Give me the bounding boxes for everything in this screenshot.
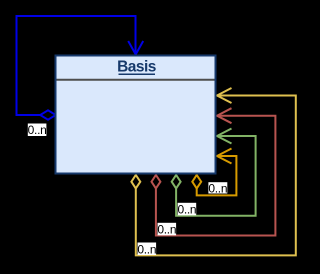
class Basis (UML class box): [56, 56, 216, 174]
multiplicity label 0..n (red): [157, 223, 176, 237]
aggregation diamond blue (left edge): [40, 110, 56, 119]
multiplicity label 0..n (green): [177, 203, 196, 217]
aggregation diamond orange (bottom edge): [192, 175, 201, 189]
wire yellow self-association: [136, 96, 296, 256]
arrowhead orange (open, into right edge): [217, 149, 232, 164]
aggregation diamond green (bottom edge): [172, 175, 181, 189]
wire orange self-association: [197, 156, 237, 195]
class Basis title separator: [57, 79, 215, 81]
aggregation diamond red (bottom edge): [152, 175, 161, 189]
svg-text:0..n: 0..n: [208, 181, 227, 195]
wire red self-association: [156, 116, 276, 236]
arrowhead blue (open, into top edge): [128, 41, 143, 55]
svg-text:Basis: Basis: [117, 59, 156, 76]
aggregation diamond yellow (bottom edge): [131, 175, 140, 189]
svg-text:0..n: 0..n: [177, 203, 196, 217]
svg-text:0..n: 0..n: [157, 223, 176, 237]
class Basis title text: [117, 59, 156, 76]
multiplicity label 0..n (yellow): [137, 242, 156, 256]
multiplicity label 0..n (orange): [208, 181, 227, 195]
wire green self-association: [176, 136, 256, 216]
arrowhead red (open, into right edge): [217, 108, 232, 123]
arrowhead yellow (open, into right edge): [217, 88, 232, 103]
arrowhead green (open, into right edge): [217, 129, 232, 144]
wire blue self-association: [17, 16, 136, 115]
svg-text:0..n: 0..n: [28, 123, 47, 137]
svg-text:0..n: 0..n: [137, 242, 156, 256]
multiplicity label 0..n (blue): [28, 123, 47, 137]
